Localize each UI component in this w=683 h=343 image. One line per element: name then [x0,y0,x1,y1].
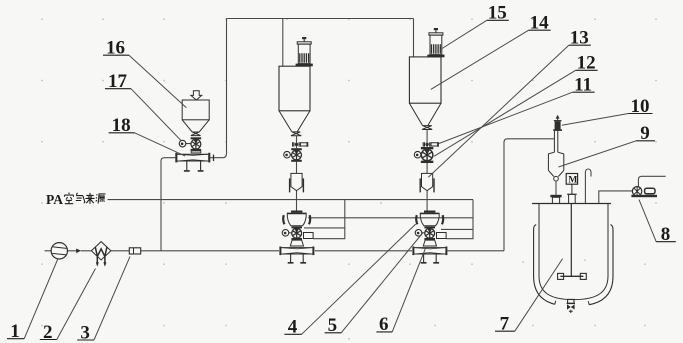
wire riser to cyclone [504,139,554,251]
slide valve 11 (silo 2) [423,142,439,147]
svg-text:3: 3 [80,322,90,343]
svg-text:10: 10 [631,96,650,117]
svg-text:12: 12 [577,53,596,74]
wire riser from ejector 18 to header [210,19,226,158]
svg-text:5: 5 [328,315,338,336]
svg-text:16: 16 [106,37,125,58]
silo 1 body [279,66,310,136]
wire weigh hopper vent header [308,217,473,219]
wire bottom conveying air line [45,250,505,252]
svg-text:13: 13 [570,28,589,49]
reactor bottom outlet valve [567,299,575,313]
flow arrow [76,249,81,254]
svg-text:14: 14 [530,13,550,34]
vent fan 8 [631,187,657,198]
bin vent filter (silo 2) [427,28,444,57]
char yuan [96,194,106,204]
wire PA branch to silo2 valve [446,200,473,239]
wire PA branch to silo1 valve [313,200,345,239]
feed inlet arrow [191,91,202,100]
wire silo2 valve vent [441,228,473,230]
wire silo2 discharge axis [426,130,428,211]
discharge valve with gauge (silo 2) [415,226,446,240]
slide valve (silo 1) [293,142,309,147]
wire silo1 valve vent [304,227,345,229]
wire fan outlet [638,176,665,187]
blower 1 [51,243,67,259]
PA air source text [46,192,106,207]
wire ejector 18 air supply drop [161,158,175,251]
intermediate hopper 13 (silo 2) [420,173,434,192]
weigh hopper (silo 2) [416,211,443,226]
wire cyclone drop to reactor [555,181,557,195]
svg-text:4: 4 [288,317,298,338]
rotary valve 12 (silo 2) [421,147,434,163]
wire reactor vent to fan [599,191,633,204]
ejector (silo 2) [412,240,447,263]
weigh hopper 4 (silo 1) [283,211,310,226]
svg-text:8: 8 [661,224,671,245]
reactor 7 vessel [532,204,613,305]
svg-text:PA: PA [46,192,63,207]
svg-text:17: 17 [108,71,128,92]
bin vent filter 15 (silo 1) [296,37,313,66]
char lai [85,193,94,204]
gauge (silo 1 rotary) [284,151,292,158]
gauge (silo 2 rotary) [414,151,422,158]
discharge valve 5 with gauge (silo 1) [282,226,313,240]
svg-text:1: 1 [10,321,20,342]
wire silo2 inlet drop [413,19,415,57]
char qi [76,193,85,203]
gooseneck vent pipe [585,169,591,203]
wire PA air header [108,199,474,201]
wire silo1 discharge axis [296,136,298,211]
agitator shaft and paddle [558,204,587,280]
svg-text:2: 2 [43,322,53,343]
regulator 3 [129,248,140,254]
svg-text:7: 7 [500,314,510,335]
char kong [65,193,74,204]
air filter 2 [91,242,111,267]
svg-text:9: 9 [640,123,650,144]
svg-text:M: M [568,176,577,186]
shutoff valve 10 [553,115,562,153]
intermediate hopper (silo 1) [290,173,304,192]
ejector 6 (silo 1) [279,240,314,263]
svg-text:11: 11 [574,75,592,96]
rotary feeder 17 (under hopper 16) [191,137,202,151]
reactor feed nozzle [550,195,561,204]
silo 2 body [409,57,441,130]
wire top conveying header [227,18,414,20]
feed hopper 16 [182,100,209,136]
ejector 18 [175,151,213,171]
svg-text:18: 18 [112,115,131,136]
cyclone receiver 9 [548,152,563,181]
svg-text:15: 15 [488,3,507,24]
agitator motor M [566,174,577,204]
rotary valve (silo 1) [291,148,302,162]
pressure gauge 17 [179,140,191,147]
wire silo1 inlet drop [282,19,284,67]
svg-text:6: 6 [379,314,389,335]
